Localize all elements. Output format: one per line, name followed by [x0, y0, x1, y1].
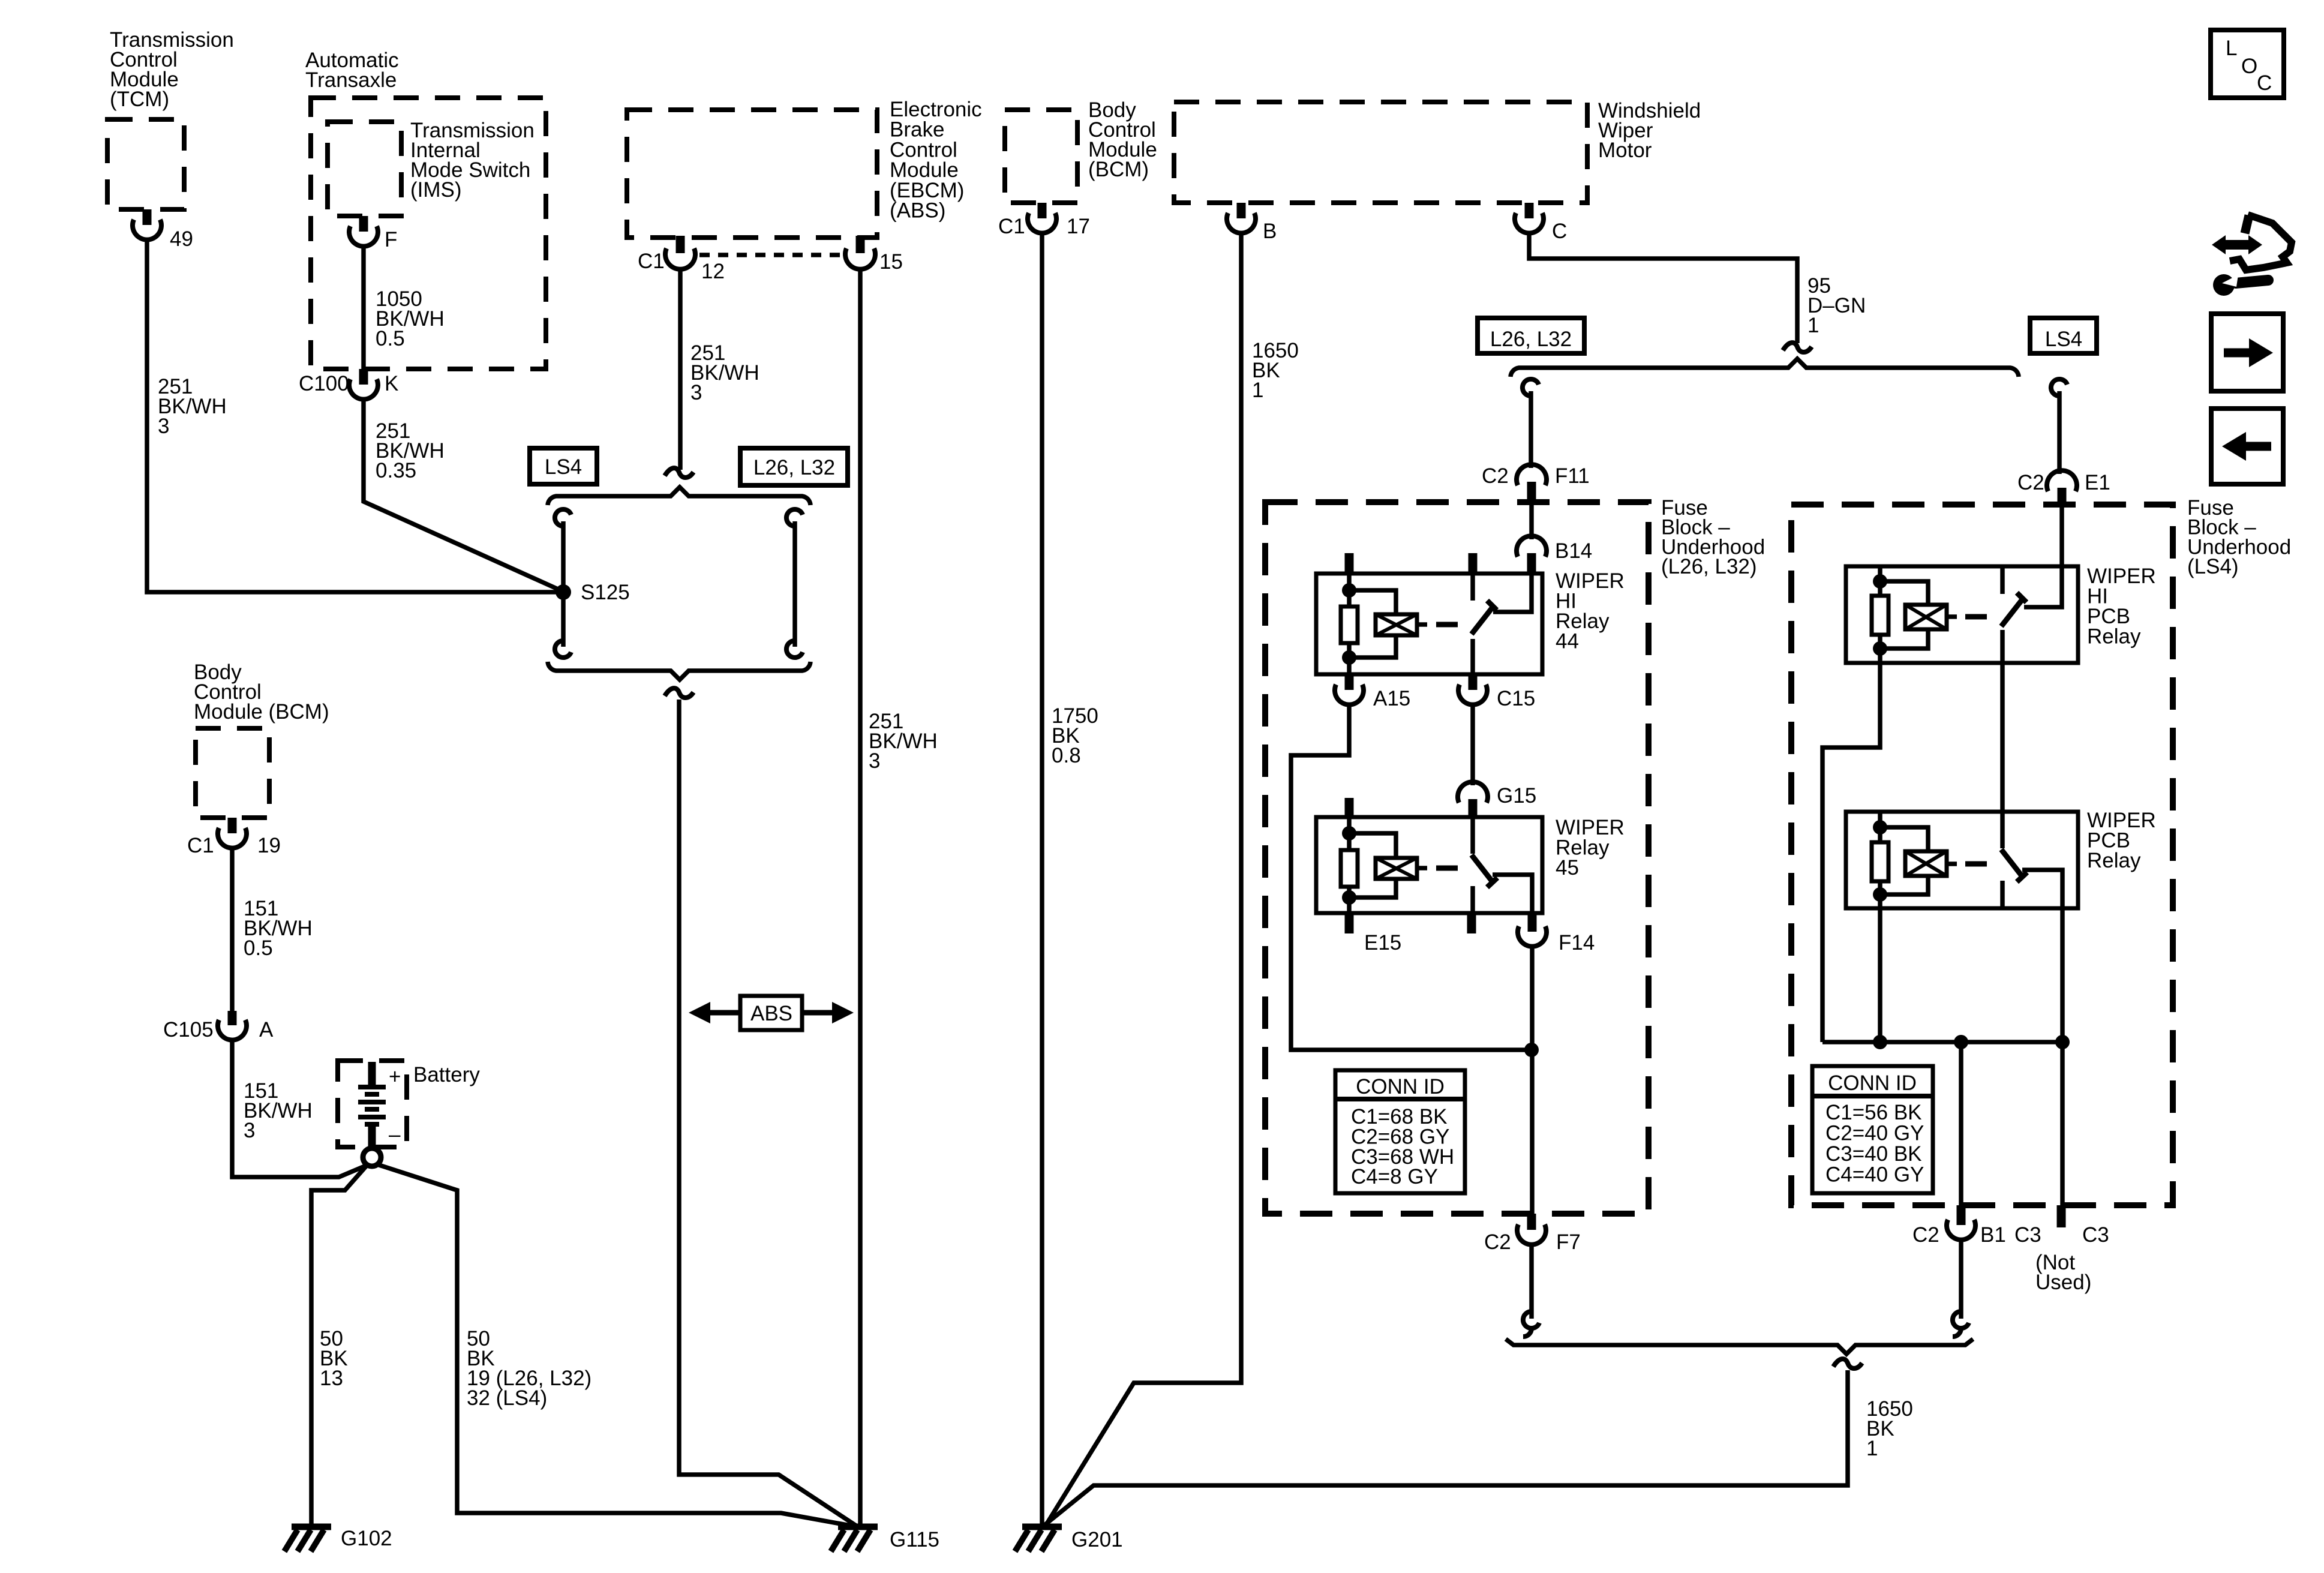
svg-text:F11: F11 [1555, 464, 1590, 488]
relay PCB switch output down to bus [2060, 908, 2065, 1042]
fuse block box Underhood (L26,L32) [1265, 502, 1649, 1214]
svg-text:F7: F7 [1556, 1230, 1581, 1254]
svg-text:B1: B1 [1980, 1223, 2006, 1247]
wire label 95 D-GN 1 [1807, 274, 1866, 337]
wire label 50 BK 19 (L26, L32) 32 (LS4) [467, 1327, 591, 1410]
svg-text:19: 19 [257, 834, 281, 857]
option split top bus [548, 487, 810, 505]
bottom merge bus 1650 BK [1506, 1339, 1973, 1354]
top-right option split bus [1511, 359, 2019, 377]
svg-text:(L26, L32): (L26, L32) [1661, 555, 1757, 578]
svg-text:15: 15 [879, 250, 903, 274]
connector C (wiper motor) [1515, 203, 1567, 243]
svg-text:C1: C1 [187, 834, 214, 857]
svg-text:C1: C1 [998, 215, 1025, 238]
wire label 1650 BK 1 (bottom) [1866, 1397, 1913, 1460]
svg-text:C100: C100 [299, 372, 349, 395]
svg-text:17: 17 [1067, 215, 1090, 238]
wire C15 to G15 [1470, 704, 1475, 785]
svg-text:L26, L32: L26, L32 [1490, 328, 1572, 351]
label: Fuse Block - Underhood (L26, L32) [1661, 496, 1765, 578]
relay 44 coil [1349, 590, 1427, 658]
wire label 50 BK 13 [320, 1327, 348, 1390]
connector C15 [1458, 674, 1535, 710]
svg-text:0.8: 0.8 [1052, 744, 1081, 767]
svg-text:CONN ID: CONN ID [1356, 1075, 1445, 1098]
component box Windshield Wiper Motor [1174, 102, 1587, 203]
svg-text:C15: C15 [1497, 687, 1535, 710]
wire 1750 BK 0.8 from BCM 17 to G201 [1040, 232, 1044, 1526]
module box BCM (left) [196, 728, 269, 818]
wire F7 down to bottom merge [1529, 1244, 1534, 1319]
module box BCM (top) [1005, 110, 1077, 203]
ground G115 [831, 1527, 939, 1551]
svg-text:S125: S125 [581, 581, 630, 604]
connector F (IMS pin) [349, 216, 397, 251]
label: Fuse Block - Underhood (LS4) [2187, 496, 2291, 578]
label: WIPER HI PCB Relay [2087, 565, 2156, 649]
label: WIPER PCB Relay [2087, 809, 2156, 872]
wire break squiggle below merge [1833, 1359, 1862, 1368]
svg-text:Relay: Relay [2087, 849, 2141, 872]
connector pin 15 (EBCM) [845, 236, 903, 274]
svg-text:Transaxle: Transaxle [305, 68, 397, 92]
label: Body Control Module (BCM) left [194, 661, 329, 724]
svg-text:C3: C3 [2082, 1223, 2109, 1247]
wire label 251 BK/WH 3 (pin 12 wire) [690, 341, 759, 404]
wire 1050 BK/WH 0.5 from F to C100 [361, 245, 366, 369]
relay 45 coil [1349, 833, 1427, 897]
svg-text:49: 49 [170, 227, 193, 251]
svg-text:C: C [1552, 220, 1567, 243]
label: Transmission Internal Mode Switch (IMS) [410, 119, 535, 202]
L26,L32 branch hook and wire to F11 [1523, 379, 1539, 468]
svg-text:12: 12 [701, 260, 725, 283]
svg-text:K: K [385, 372, 398, 395]
wire 251 BK/WH continues to G115 [679, 700, 856, 1526]
wire 95 D-GN 1 from C to option split [1529, 232, 1797, 343]
wire to C3 (not used) [2060, 1042, 2065, 1205]
LS4 branch hook and wire to E1 [2051, 379, 2067, 474]
label: Transmission Control Module (TCM) [110, 28, 234, 111]
wire 50 BK 19/32 battery to G115 [377, 1164, 857, 1527]
svg-text:C2: C2 [2017, 471, 2044, 494]
svg-text:3: 3 [244, 1119, 255, 1142]
label: WIPER HI Relay 44 [1556, 569, 1625, 653]
wire label 1650 BK 1 (motor B) [1252, 339, 1299, 402]
connector C2 pin E1 [2017, 470, 2110, 507]
relay PCB coil-to-switch dash [1965, 861, 1987, 867]
relay switch common wire to second relay [2000, 663, 2005, 812]
svg-text:(IMS): (IMS) [410, 178, 462, 202]
LS4 branch vertical with hooks [555, 509, 571, 658]
wire from A15 down-left to F14 junction [1291, 704, 1529, 1050]
L26,L32 branch vertical with hooks [786, 509, 803, 658]
wire 50 BK 13 battery to G102 [311, 1165, 367, 1526]
short-dash connector face line between 12 and 15 [699, 253, 841, 257]
stub C3 (not used) [2014, 1205, 2109, 1294]
svg-text:G115: G115 [890, 1528, 939, 1551]
svg-text:–: – [389, 1123, 401, 1146]
relay 44 top pin stubs [1345, 553, 1354, 574]
wire F11 to B14 [1529, 503, 1534, 539]
label: Electronic Brake Control Module (EBCM) (ABS) [890, 98, 982, 223]
svg-text:C4=8 GY: C4=8 GY [1351, 1165, 1438, 1188]
svg-text:C2: C2 [1484, 1230, 1511, 1254]
variant tag box L26, L32 (top) [1478, 318, 1584, 353]
connector F14 [1518, 913, 1595, 954]
connector B14 [1517, 536, 1592, 574]
label: Windshield Wiper Motor [1598, 99, 1701, 162]
wire B1 down to merge [1959, 1239, 1963, 1319]
svg-text:G201: G201 [1071, 1528, 1123, 1551]
relay 45 bottom stubs E15 and unused [1349, 913, 1472, 954]
wire label 251 BK/WH 3 (TCM) [158, 375, 227, 438]
svg-text:C2=40 GY: C2=40 GY [1825, 1122, 1924, 1145]
relay WIPER PCB Relay box [1846, 812, 2078, 908]
svg-text:Module (BCM): Module (BCM) [194, 700, 329, 724]
connector C100 pin K [299, 369, 398, 400]
relay 44 resistor branch [1341, 574, 1358, 674]
connector B (wiper motor) [1227, 203, 1277, 243]
svg-text:C1: C1 [638, 250, 665, 273]
svg-text:L: L [2226, 37, 2237, 60]
svg-text:0.5: 0.5 [376, 327, 405, 350]
relay 45 switch [1472, 817, 1532, 913]
backward arrow box [2211, 409, 2283, 484]
wire E1 into relay switch contact [2024, 507, 2062, 607]
svg-text:(BCM): (BCM) [1088, 158, 1149, 181]
svg-text:(LS4): (LS4) [2187, 555, 2239, 578]
svg-text:+: + [389, 1065, 401, 1088]
relay 44 switch [1472, 574, 1532, 674]
svg-text:(TCM): (TCM) [110, 88, 169, 111]
svg-text:44: 44 [1556, 630, 1579, 653]
svg-text:CONN ID: CONN ID [1828, 1071, 1917, 1095]
wire label 151 BK/WH 0.5 [244, 897, 313, 960]
svg-text:1: 1 [1252, 379, 1263, 402]
wire 251 BK/WH 3 from pin 12 down to option split [678, 268, 683, 470]
relay PCB coil [1880, 827, 1957, 894]
svg-text:1: 1 [1866, 1437, 1878, 1460]
svg-text:Battery: Battery [413, 1063, 480, 1086]
wire label 1050 BK/WH 0.5 [376, 287, 445, 350]
svg-text:G102: G102 [341, 1527, 392, 1550]
component box Automatic Transaxle [311, 98, 546, 369]
wire break squiggle above option split [665, 468, 693, 478]
svg-text:A15: A15 [1373, 687, 1410, 710]
wire 151 BK/WH 3 from A to battery negative [232, 1039, 366, 1177]
svg-text:C4=40 GY: C4=40 GY [1825, 1163, 1924, 1187]
fuse block box Underhood (LS4) [1791, 505, 2173, 1205]
bottom bus inside LS4 fuse block [1822, 1035, 2070, 1049]
svg-text:F14: F14 [1559, 931, 1595, 954]
wire 251 BK/WH 3 from TCM to S125 [147, 239, 556, 592]
svg-text:C3: C3 [2014, 1223, 2041, 1247]
connector C1 pin 12 (EBCM) [638, 236, 725, 283]
component box Transmission Internal Mode Switch (IMS) [328, 122, 401, 216]
relay HI PCB coil left wire down to bus [1822, 663, 1880, 1042]
connector C2 pin F7 [1484, 1214, 1581, 1254]
svg-text:ABS: ABS [750, 1002, 792, 1025]
svg-text:3: 3 [158, 415, 169, 438]
ground G102 [284, 1527, 392, 1551]
wire break squiggle above top-right option split [1783, 343, 1812, 352]
svg-text:A: A [259, 1018, 274, 1041]
connector C2 pin B1 [1912, 1205, 2006, 1247]
svg-text:13: 13 [320, 1367, 343, 1390]
ABS off-page reference symbol [689, 996, 854, 1030]
variant tag box LS4 (top right) [2030, 318, 2097, 353]
relay HI PCB coil-to-switch dash [1965, 614, 1987, 620]
svg-text:Used): Used) [2035, 1271, 2091, 1294]
svg-text:1: 1 [1807, 314, 1819, 337]
battery negative terminal node [363, 1148, 381, 1166]
wire label 251 BK/WH 3 (pin 15 wire) [869, 710, 938, 773]
table CONN ID (L26,L32 block) [1335, 1070, 1465, 1193]
label: WIPER Relay 45 [1556, 816, 1625, 879]
svg-text:32 (LS4): 32 (LS4) [467, 1386, 547, 1410]
relay HI PCB coil [1880, 581, 1957, 649]
svg-text:E15: E15 [1364, 931, 1401, 954]
wire 151 BK/WH 0.5 from 19 to C105 [230, 847, 235, 1011]
svg-text:LS4: LS4 [545, 455, 582, 479]
ground G201 [1015, 1527, 1123, 1551]
relay HI PCB resistor branch [1872, 566, 1888, 663]
wire break squiggle below option split [665, 688, 693, 698]
relay WIPER Relay 45 box [1316, 817, 1542, 913]
splice S125 [556, 581, 630, 604]
variant tag box LS4 (mid) [530, 448, 597, 484]
svg-text:G15: G15 [1497, 784, 1536, 807]
variant tag box L26, L32 (mid) [740, 448, 848, 485]
relay 44 coil-to-switch dash [1436, 622, 1458, 628]
relay PCB resistor branch [1872, 812, 1888, 908]
module box TCM [107, 119, 184, 209]
relay 45 resistor branch [1341, 817, 1358, 913]
svg-text:C1=56 BK: C1=56 BK [1825, 1101, 1922, 1124]
wire F14 down to F7 with junction [1524, 945, 1539, 1214]
wire label 151 BK/WH 3 [244, 1079, 313, 1142]
wrench icon [2213, 274, 2268, 296]
svg-text:(ABS): (ABS) [890, 199, 945, 223]
relay HI PCB switch [2001, 566, 2026, 663]
connector C1 pin 17 (BCM) [998, 203, 1090, 238]
wire label 251 BK/WH 0.35 [376, 419, 445, 482]
table CONN ID (LS4 block) [1812, 1066, 1933, 1193]
connector C2 pin F11 [1482, 464, 1590, 503]
svg-text:O: O [2241, 55, 2257, 78]
battery cell symbol [358, 1062, 401, 1148]
wire 1650 BK 1 to G201 [1044, 1370, 1848, 1526]
relay PCB switch [2001, 812, 2062, 908]
relay PCB left wire down to bus [1878, 908, 1882, 1042]
svg-text:C105: C105 [163, 1018, 214, 1041]
relay 45 coil-to-switch dash [1436, 866, 1458, 871]
wire 251 BK/WH 3 from pin 15 to G115 [858, 268, 863, 1526]
wire label 1750 BK 0.8 [1052, 704, 1098, 767]
svg-text:0.35: 0.35 [376, 459, 416, 482]
svg-text:B14: B14 [1555, 539, 1592, 563]
svg-text:3: 3 [690, 381, 702, 404]
connector C1 pin 19 [187, 818, 281, 857]
relay WIPER HI Relay 44 box [1316, 574, 1542, 674]
hook at B1 wire end [1953, 1311, 1969, 1337]
svg-text:F: F [385, 228, 397, 251]
svg-text:C2: C2 [1482, 464, 1509, 488]
svg-text:0.5: 0.5 [244, 936, 273, 960]
svg-text:Relay: Relay [2087, 625, 2141, 649]
hook at F7 wire end [1523, 1311, 1539, 1337]
wire 251 BK/WH 0.35 from K to S125 [364, 398, 558, 589]
svg-text:C3=40 BK: C3=40 BK [1825, 1142, 1922, 1166]
svg-text:L26, L32: L26, L32 [753, 456, 835, 479]
svg-text:45: 45 [1556, 856, 1579, 879]
wire 1650 BK 1 from B to G201 [1046, 232, 1241, 1526]
module box EBCM [627, 110, 877, 238]
connector G15 [1458, 782, 1536, 817]
LOC reference box [2211, 30, 2284, 98]
relay WIPER HI PCB Relay box [1846, 566, 2078, 663]
connector 49 (TCM pin) [133, 209, 193, 251]
forward arrow box [2211, 314, 2283, 391]
connector A15 [1335, 674, 1410, 710]
option split bottom bus [548, 662, 810, 680]
svg-text:Motor: Motor [1598, 139, 1652, 162]
battery dashed box [338, 1061, 407, 1147]
svg-text:LS4: LS4 [2045, 328, 2082, 351]
svg-text:3: 3 [869, 749, 880, 773]
label: Body Control Module (BCM) top [1088, 98, 1157, 181]
label: Automatic Transaxle [305, 49, 399, 92]
svg-text:C2: C2 [1912, 1223, 1939, 1247]
svg-text:B: B [1263, 220, 1277, 243]
connector C105 pin A [163, 1011, 274, 1041]
wire to B1 [1959, 1042, 1963, 1205]
svg-text:E1: E1 [2085, 471, 2110, 494]
hand with double arrow icon [2212, 215, 2292, 270]
relay 45 top dead-end stub [1345, 798, 1354, 817]
svg-text:C: C [2257, 71, 2272, 95]
